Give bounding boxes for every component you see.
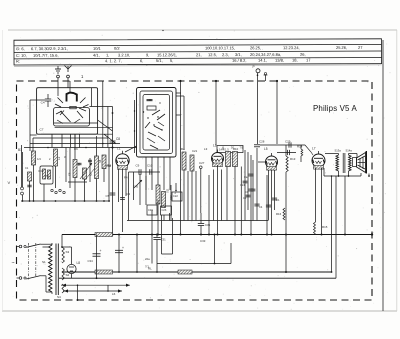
svg-text:C: 10,: C: 10,: [16, 53, 27, 58]
svg-text:C29: C29: [285, 139, 291, 143]
svg-text:S14a: S14a: [346, 149, 353, 153]
svg-text:L2: L2: [213, 144, 217, 148]
svg-text:L7: L7: [312, 147, 316, 151]
svg-text:10/1: 10/1: [93, 46, 102, 51]
svg-text:10/1.7/7, 15.6,: 10/1.7/7, 15.6,: [33, 53, 59, 58]
svg-text:R10: R10: [233, 147, 239, 151]
svg-text:L8: L8: [77, 261, 81, 265]
svg-text:C26: C26: [162, 208, 167, 212]
svg-text:C10: C10: [147, 164, 153, 168]
svg-text:18,: 18,: [292, 58, 298, 63]
svg-text:14.1,: 14.1,: [258, 58, 267, 63]
svg-text:9,: 9,: [146, 52, 149, 57]
svg-text:30a: 30a: [180, 147, 185, 151]
svg-text:13/8,: 13/8,: [275, 58, 284, 63]
svg-text:L6: L6: [112, 292, 116, 296]
svg-text:5/1,: 5/1,: [156, 58, 163, 63]
svg-text:S11: S11: [166, 188, 170, 193]
svg-text:1/4: 1/4: [37, 157, 41, 161]
svg-text:+: +: [122, 246, 124, 250]
svg-text:5,: 5,: [170, 58, 173, 63]
svg-text:L5: L5: [264, 147, 268, 151]
svg-text:C27: C27: [199, 161, 205, 165]
svg-text:21,: 21,: [196, 52, 202, 57]
svg-text:7/1: 7/1: [145, 265, 149, 269]
svg-text:4/1,: 4/1,: [93, 53, 100, 58]
svg-text:C16: C16: [148, 208, 153, 212]
svg-text:+: +: [100, 249, 102, 253]
svg-text:S6: S6: [77, 162, 81, 166]
svg-text:S3: S3: [66, 250, 70, 254]
svg-text:P: P: [253, 65, 255, 69]
svg-text:S4: S4: [57, 295, 61, 299]
svg-text:L2: L2: [57, 156, 61, 160]
svg-text:4. 1. 2. 7,: 4. 1. 2. 7,: [105, 58, 122, 63]
svg-text:12.5,: 12.5,: [208, 52, 217, 57]
svg-text:C35: C35: [205, 223, 211, 227]
svg-text:C4: C4: [41, 101, 45, 105]
svg-text:C7: C7: [40, 128, 44, 132]
svg-text:C8: C8: [116, 137, 120, 141]
svg-text:12.23.24,: 12.23.24,: [283, 45, 300, 50]
svg-text:C9: C9: [136, 164, 140, 168]
svg-text:2.3,: 2.3,: [222, 52, 229, 57]
svg-text:C34: C34: [88, 259, 94, 263]
svg-text:~: ~: [12, 261, 15, 267]
svg-text:C1: C1: [276, 198, 280, 202]
svg-text:R4: R4: [124, 176, 128, 180]
svg-text:C31: C31: [161, 238, 167, 242]
svg-text:15.12.26/1,: 15.12.26/1,: [157, 52, 177, 57]
svg-text:C4: C4: [259, 205, 263, 209]
svg-text:3.2.10,: 3.2.10,: [118, 52, 130, 57]
svg-text:L3: L3: [204, 147, 208, 151]
svg-text:C6: C6: [74, 147, 78, 151]
svg-text:Ca: Ca: [244, 175, 248, 179]
svg-text:R:: R:: [16, 59, 20, 64]
svg-text:C5a: C5a: [45, 174, 50, 178]
svg-text:S8: S8: [98, 159, 102, 163]
svg-text:C21: C21: [192, 149, 198, 153]
svg-text:V: V: [8, 180, 11, 185]
svg-text:R1a: R1a: [39, 169, 44, 173]
svg-text:22a: 22a: [145, 257, 150, 261]
svg-text:25.26,: 25.26,: [336, 45, 347, 50]
svg-text:C1: C1: [25, 166, 29, 170]
svg-text:C28: C28: [259, 140, 265, 144]
svg-text:6,: 6,: [140, 58, 143, 63]
svg-text:R16: R16: [276, 212, 282, 216]
svg-text:7/1: 7/1: [240, 147, 244, 150]
svg-text:L1: L1: [117, 147, 121, 151]
svg-text:S1: S1: [42, 260, 46, 264]
svg-text:3/1,: 3/1,: [235, 52, 242, 57]
svg-text:26,: 26,: [300, 52, 306, 57]
svg-text:7/45: 7/45: [133, 185, 139, 189]
svg-text:C2: C2: [243, 196, 247, 200]
svg-text:C33: C33: [200, 239, 206, 243]
svg-text:C5: C5: [106, 194, 110, 198]
svg-text:S13a: S13a: [335, 149, 342, 153]
svg-text:6.7, 30.30/2.9, 2.3/1,: 6.7, 30.30/2.9, 2.3/1,: [31, 46, 68, 51]
svg-text:100.10.10.17.15,: 100.10.10.17.15,: [205, 45, 235, 50]
svg-text:S2: S2: [66, 273, 70, 277]
svg-text:B1: B1: [18, 148, 22, 152]
svg-text:S5: S5: [68, 172, 72, 176]
svg-text:R14: R14: [297, 145, 303, 149]
svg-text:C24: C24: [240, 183, 245, 187]
svg-text:16./ 8.2,: 16./ 8.2,: [232, 58, 246, 63]
svg-text:R6: R6: [221, 146, 225, 150]
svg-text:C8a: C8a: [106, 164, 111, 168]
svg-text:26.25,: 26.25,: [250, 45, 261, 50]
svg-text:1,: 1,: [106, 53, 109, 58]
svg-text:R15: R15: [322, 225, 328, 229]
svg-text:R13: R13: [290, 157, 296, 161]
svg-text:Philips V5 A: Philips V5 A: [313, 104, 357, 113]
svg-text:0/2: 0/2: [114, 46, 120, 51]
